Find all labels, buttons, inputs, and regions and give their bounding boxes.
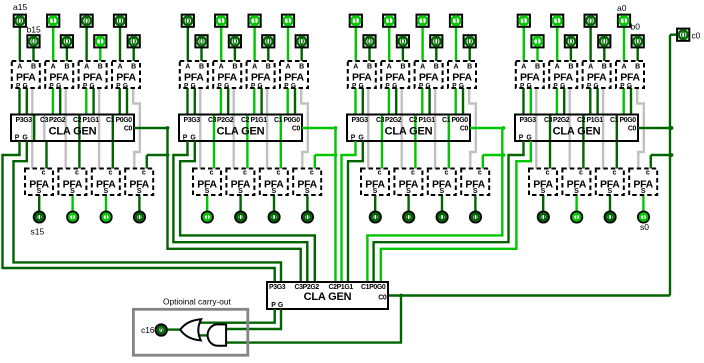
svg-text:0: 0: [541, 212, 546, 222]
svg-text:P3G3: P3G3: [184, 117, 201, 124]
svg-text:c: c: [108, 169, 112, 176]
svg-text:P0G0: P0G0: [452, 117, 469, 124]
svg-text:P: P: [271, 302, 276, 309]
svg-text:S: S: [70, 188, 75, 195]
svg-text:1: 1: [535, 37, 540, 47]
svg-text:0: 0: [84, 16, 89, 26]
svg-text:G: G: [190, 134, 195, 141]
svg-text:0: 0: [305, 212, 310, 222]
svg-text:G: G: [123, 82, 128, 89]
svg-text:B: B: [299, 63, 304, 70]
svg-text:G: G: [191, 82, 196, 89]
svg-text:P: P: [16, 82, 21, 89]
svg-text:S: S: [439, 188, 444, 195]
svg-text:S: S: [373, 188, 378, 195]
svg-text:0: 0: [473, 212, 478, 222]
svg-text:B: B: [635, 63, 640, 70]
svg-text:0: 0: [238, 212, 243, 222]
svg-text:1: 1: [555, 16, 560, 26]
svg-text:B: B: [31, 63, 36, 70]
svg-text:A: A: [555, 63, 560, 70]
svg-text:C2: C2: [241, 117, 250, 124]
svg-text:a0: a0: [617, 3, 627, 13]
svg-text:a15: a15: [13, 2, 27, 12]
svg-text:P: P: [116, 82, 121, 89]
svg-text:G: G: [526, 134, 531, 141]
svg-text:0: 0: [299, 37, 304, 47]
svg-text:A: A: [219, 63, 224, 70]
svg-text:1: 1: [420, 16, 425, 26]
svg-text:G: G: [359, 82, 364, 89]
svg-text:C0: C0: [378, 295, 387, 302]
svg-text:0: 0: [602, 37, 607, 47]
svg-text:C0: C0: [628, 126, 637, 133]
svg-text:0: 0: [406, 212, 411, 222]
svg-text:P: P: [519, 134, 524, 141]
svg-text:B: B: [64, 63, 69, 70]
svg-text:P3G3: P3G3: [352, 117, 369, 124]
svg-text:P3G3: P3G3: [520, 117, 537, 124]
svg-text:0: 0: [117, 16, 122, 26]
svg-text:P: P: [284, 82, 289, 89]
svg-text:B: B: [266, 63, 271, 70]
svg-text:P1G1: P1G1: [83, 117, 100, 124]
svg-text:B: B: [199, 63, 204, 70]
svg-text:B: B: [131, 63, 136, 70]
svg-text:0: 0: [568, 37, 573, 47]
svg-text:C1P0G0: C1P0G0: [361, 284, 386, 291]
svg-text:s0: s0: [640, 222, 649, 232]
svg-text:A: A: [185, 63, 190, 70]
svg-text:G: G: [627, 82, 632, 89]
svg-text:P: P: [49, 82, 54, 89]
svg-text:1: 1: [70, 212, 75, 222]
svg-text:G: G: [392, 82, 397, 89]
svg-text:B: B: [568, 63, 573, 70]
svg-text:A: A: [621, 63, 626, 70]
svg-text:1: 1: [574, 212, 579, 222]
svg-text:P: P: [351, 134, 356, 141]
svg-text:1: 1: [353, 16, 358, 26]
svg-text:P0G0: P0G0: [284, 117, 301, 124]
svg-text:0: 0: [635, 37, 640, 47]
svg-text:c0: c0: [692, 30, 701, 40]
svg-text:P2G2: P2G2: [49, 117, 66, 124]
svg-text:c: c: [42, 169, 46, 176]
svg-text:S: S: [406, 188, 411, 195]
svg-text:0: 0: [185, 16, 190, 26]
svg-text:S: S: [641, 188, 646, 195]
svg-text:C3: C3: [40, 117, 49, 124]
svg-text:1: 1: [219, 16, 224, 26]
svg-text:0: 0: [137, 212, 142, 222]
svg-text:C2: C2: [73, 117, 82, 124]
svg-text:0: 0: [31, 37, 36, 47]
svg-text:P: P: [183, 134, 188, 141]
svg-text:S: S: [271, 188, 276, 195]
svg-text:P2G2: P2G2: [217, 117, 234, 124]
svg-text:A: A: [252, 63, 257, 70]
svg-text:0: 0: [131, 37, 136, 47]
svg-text:1: 1: [252, 16, 257, 26]
svg-text:C0: C0: [460, 126, 469, 133]
svg-text:c: c: [444, 169, 448, 176]
svg-text:A: A: [588, 63, 593, 70]
svg-text:G: G: [560, 82, 565, 89]
svg-text:S: S: [103, 188, 108, 195]
svg-text:P: P: [385, 82, 390, 89]
svg-text:C0: C0: [124, 126, 133, 133]
svg-text:S: S: [305, 188, 310, 195]
svg-text:c: c: [579, 169, 583, 176]
svg-text:P: P: [83, 82, 88, 89]
svg-text:A: A: [521, 63, 526, 70]
svg-text:P1G1: P1G1: [251, 117, 268, 124]
svg-text:G: G: [593, 82, 598, 89]
svg-text:c: c: [310, 169, 314, 176]
svg-text:c: c: [243, 169, 247, 176]
svg-text:1: 1: [98, 37, 103, 47]
svg-text:G: G: [527, 82, 532, 89]
svg-text:C3: C3: [376, 117, 385, 124]
svg-text:A: A: [453, 63, 458, 70]
svg-text:S: S: [238, 188, 243, 195]
svg-text:S: S: [137, 188, 142, 195]
svg-text:G: G: [23, 82, 28, 89]
svg-text:P: P: [352, 82, 357, 89]
svg-text:B: B: [434, 63, 439, 70]
svg-text:G: G: [291, 82, 296, 89]
svg-text:C3: C3: [208, 117, 217, 124]
svg-text:P: P: [15, 134, 20, 141]
svg-text:G: G: [425, 82, 430, 89]
svg-text:A: A: [387, 63, 392, 70]
svg-text:CLA GEN: CLA GEN: [385, 125, 433, 137]
svg-text:CLA GEN: CLA GEN: [304, 291, 352, 303]
svg-text:c: c: [411, 169, 415, 176]
svg-text:P: P: [553, 82, 558, 89]
svg-text:G: G: [224, 82, 229, 89]
svg-text:b15: b15: [27, 25, 41, 35]
svg-text:P1G1: P1G1: [419, 117, 436, 124]
svg-text:G: G: [278, 302, 283, 309]
svg-text:C3: C3: [544, 117, 553, 124]
svg-text:0: 0: [467, 37, 472, 47]
svg-text:0: 0: [266, 37, 271, 47]
svg-text:0: 0: [400, 37, 405, 47]
svg-text:c16: c16: [141, 325, 155, 335]
svg-text:0: 0: [681, 30, 686, 40]
svg-text:G: G: [22, 134, 27, 141]
svg-text:A: A: [285, 63, 290, 70]
svg-text:S: S: [541, 188, 546, 195]
svg-text:S: S: [473, 188, 478, 195]
svg-text:C2: C2: [409, 117, 418, 124]
svg-text:0: 0: [608, 212, 613, 222]
svg-text:B: B: [367, 63, 372, 70]
svg-text:P2G2: P2G2: [553, 117, 570, 124]
svg-text:P0G0: P0G0: [116, 117, 133, 124]
svg-text:P0G0: P0G0: [620, 117, 637, 124]
svg-text:1: 1: [51, 16, 56, 26]
svg-text:S: S: [607, 188, 612, 195]
svg-text:0: 0: [373, 212, 378, 222]
svg-text:P: P: [452, 82, 457, 89]
svg-text:A: A: [420, 63, 425, 70]
svg-text:B: B: [400, 63, 405, 70]
svg-text:P3G3: P3G3: [269, 284, 286, 291]
svg-text:0: 0: [37, 212, 42, 222]
svg-text:b0: b0: [631, 22, 641, 32]
svg-text:c: c: [142, 169, 146, 176]
svg-text:0: 0: [434, 37, 439, 47]
svg-text:P1G1: P1G1: [587, 117, 604, 124]
svg-text:1: 1: [621, 16, 626, 26]
svg-text:B: B: [232, 63, 237, 70]
svg-text:CLA GEN: CLA GEN: [217, 125, 265, 137]
svg-text:A: A: [117, 63, 122, 70]
svg-text:0: 0: [440, 212, 445, 222]
svg-text:1: 1: [104, 212, 109, 222]
svg-text:P: P: [419, 82, 424, 89]
svg-text:c: c: [75, 169, 79, 176]
svg-text:c: c: [546, 169, 550, 176]
svg-text:P: P: [251, 82, 256, 89]
svg-text:1: 1: [387, 16, 392, 26]
svg-text:S: S: [574, 188, 579, 195]
svg-text:P: P: [587, 82, 592, 89]
svg-text:c: c: [276, 169, 280, 176]
svg-text:1: 1: [521, 16, 526, 26]
svg-text:C1: C1: [106, 117, 115, 124]
svg-text:P3G3: P3G3: [16, 117, 33, 124]
svg-text:1: 1: [641, 212, 646, 222]
svg-text:S: S: [205, 188, 210, 195]
svg-text:CLA GEN: CLA GEN: [553, 125, 601, 137]
svg-text:B: B: [467, 63, 472, 70]
svg-text:c: c: [646, 169, 650, 176]
svg-text:P: P: [520, 82, 525, 89]
svg-text:0: 0: [159, 326, 163, 335]
svg-text:G: G: [89, 82, 94, 89]
svg-text:1: 1: [453, 16, 458, 26]
svg-text:0: 0: [272, 212, 277, 222]
svg-text:1: 1: [285, 16, 290, 26]
svg-text:0: 0: [367, 37, 372, 47]
svg-text:c: c: [612, 169, 616, 176]
svg-text:0: 0: [17, 16, 22, 26]
svg-text:G: G: [358, 134, 363, 141]
svg-text:P: P: [620, 82, 625, 89]
svg-text:C1: C1: [274, 117, 283, 124]
svg-text:c: c: [378, 169, 382, 176]
svg-text:G: G: [56, 82, 61, 89]
svg-text:C2: C2: [577, 117, 586, 124]
svg-text:A: A: [353, 63, 358, 70]
svg-text:C0: C0: [292, 126, 301, 133]
svg-text:s15: s15: [31, 227, 45, 237]
svg-text:C1: C1: [610, 117, 619, 124]
svg-text:A: A: [51, 63, 56, 70]
svg-text:0: 0: [199, 37, 204, 47]
svg-text:S: S: [37, 188, 42, 195]
svg-text:0: 0: [232, 37, 237, 47]
svg-text:B: B: [535, 63, 540, 70]
svg-text:Optioinal carry-out: Optioinal carry-out: [163, 296, 231, 306]
svg-text:A: A: [17, 63, 22, 70]
svg-text:B: B: [98, 63, 103, 70]
svg-text:0: 0: [64, 37, 69, 47]
svg-text:C1: C1: [442, 117, 451, 124]
svg-text:P2G2: P2G2: [385, 117, 402, 124]
svg-text:A: A: [84, 63, 89, 70]
svg-text:CLA GEN: CLA GEN: [49, 125, 97, 137]
svg-text:P: P: [217, 82, 222, 89]
svg-text:G: G: [459, 82, 464, 89]
svg-text:c: c: [210, 169, 214, 176]
svg-text:P: P: [184, 82, 189, 89]
svg-text:G: G: [257, 82, 262, 89]
svg-text:1: 1: [205, 212, 210, 222]
svg-text:B: B: [602, 63, 607, 70]
svg-text:0: 0: [588, 16, 593, 26]
svg-text:c: c: [478, 169, 482, 176]
